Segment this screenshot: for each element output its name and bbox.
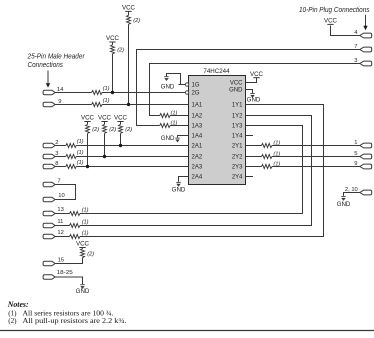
wire 1G stub (179, 84, 182, 86)
25-pin header pin 3 connector (43, 154, 55, 159)
resistor 100-ohm series (1) on 1A3 line (160, 123, 170, 127)
svg-text:VCC: VCC (98, 115, 112, 122)
10-pin plug pins 2,10 connector (360, 190, 372, 195)
bottom rule (0, 330, 374, 332)
svg-text:GND: GND (161, 83, 175, 90)
25-pin header pin 13 connector (43, 211, 55, 216)
svg-text:VCC: VCC (76, 241, 90, 248)
wire pullup B top (128, 11, 130, 15)
wire R to 2A1 (76, 145, 188, 147)
wire R12 loop to 1Y1 (80, 105, 324, 237)
wire pin13 to R (55, 213, 70, 215)
svg-text:(2): (2) (109, 127, 116, 133)
resistor 100-ohm series (1) on pin13 line (70, 211, 80, 215)
25-pin header pin 2 connector (43, 143, 55, 148)
svg-text:12: 12 (57, 230, 63, 236)
svg-text:74HC244: 74HC244 (203, 68, 230, 75)
svg-text:VCC: VCC (106, 35, 120, 42)
resistor 2.2k pull-up (2) for pin9 line (127, 15, 131, 24)
ground at 1G enable (164, 76, 168, 78)
ground at pins 18-25 (80, 284, 84, 286)
ground at 2A4 (176, 181, 180, 183)
svg-text:(2): (2) (92, 127, 99, 133)
arrow to 25-pin header (47, 71, 49, 85)
10-pin plug pin 1 connector (360, 143, 372, 148)
svg-text:(1): (1) (171, 120, 178, 126)
resistor 100-ohm series (1) on pin8 line (66, 164, 76, 168)
svg-text:(1): (1) (82, 219, 89, 225)
25-pin header pin 8 connector (43, 164, 55, 169)
wire pullup E drop (120, 133, 122, 145)
svg-text:1A2: 1A2 (192, 114, 203, 120)
wire 2Y1 to R (246, 145, 262, 147)
wire pullup A top (112, 42, 114, 45)
ground at plug pins 2,10 (341, 196, 345, 198)
svg-text:VCC: VCC (230, 81, 243, 87)
svg-text:2A2: 2A2 (192, 155, 203, 161)
10-pin plug pin 4 connector (360, 33, 372, 38)
arrow to 10-pin plug (365, 15, 367, 27)
wire 1A4 to ground (178, 136, 189, 138)
wire pullup F top (82, 248, 84, 249)
svg-text:2A4: 2A4 (192, 175, 203, 181)
wire plug2,10 to ground (344, 193, 360, 196)
svg-text:(1): (1) (77, 150, 84, 156)
10-pin plug pin 3 connector (360, 61, 372, 66)
wire R to plug5 (272, 156, 360, 158)
svg-text:1Y2: 1Y2 (232, 114, 243, 120)
25-pin header pin 11 connector (43, 223, 55, 228)
svg-text:(1): (1) (273, 140, 280, 146)
svg-text:VCC: VCC (114, 115, 128, 122)
junction pullup A on pin14 line (111, 91, 114, 94)
resistor 100-ohm series (1) on 2Y2 line (262, 154, 272, 158)
resistor 2.2k pull-up (2) for pin14 line (111, 45, 115, 54)
25-pin header pin 12 connector (43, 234, 55, 239)
svg-text:11: 11 (57, 219, 63, 225)
wire U1 VCC pin to supply (246, 78, 257, 83)
wire R to 2G (102, 92, 185, 94)
wire 2Y2 to R (246, 156, 262, 158)
svg-text:18-25: 18-25 (57, 270, 73, 276)
25-pin header pin 15 connector (43, 261, 55, 266)
svg-text:(2): (2) (117, 48, 124, 54)
wire 2Y3 to R (246, 166, 262, 168)
junction pullup D on pin3 line (103, 155, 106, 158)
svg-text:VCC: VCC (81, 115, 95, 122)
wire pin7 to pin10 jumper (55, 185, 76, 200)
svg-text:(1): (1) (171, 110, 178, 116)
svg-text:All pull-up resistors are 2.2: All pull-up resistors are 2.2 k¾. (23, 317, 127, 325)
IC U1: 74HC244 octal buffer body (189, 76, 246, 185)
svg-text:15: 15 (58, 258, 64, 264)
svg-text:2G: 2G (192, 91, 200, 97)
svg-text:GND: GND (172, 186, 186, 193)
svg-text:GND: GND (247, 97, 261, 104)
junction pullup C on pin8 line (86, 165, 89, 168)
resistor 100-ohm series (1) on pin14 line (92, 90, 102, 94)
svg-text:10: 10 (58, 193, 64, 199)
resistor 100-ohm series (1) on pin3 line (66, 154, 76, 158)
svg-text:GND: GND (161, 135, 175, 142)
resistor 2.2k pull-up (2) for pin15 line (81, 249, 85, 258)
wire pin2 to R (55, 145, 66, 147)
svg-text:2A1: 2A1 (192, 144, 203, 150)
wire pin18-25 to ground (55, 277, 83, 284)
wire pin12 to R (55, 236, 70, 238)
wire pullup D drop (104, 133, 106, 156)
wire pin9 to R (55, 104, 92, 106)
wire 1G to ground (167, 74, 186, 85)
svg-text:(1): (1) (77, 139, 84, 145)
wire R to 2A2 (76, 156, 188, 158)
svg-text:VCC: VCC (324, 18, 338, 25)
resistor 2.2k pull-up (2) for pin2 line (119, 124, 123, 133)
svg-text:(2): (2) (125, 127, 132, 133)
wire U1 GND pin to ground (246, 90, 253, 93)
wire pin3 to R (55, 156, 66, 158)
resistor 100-ohm series (1) on 2Y3 line (262, 164, 272, 168)
wire pullup D top (104, 122, 106, 125)
25-pin header pin 9 connector (43, 102, 55, 107)
svg-text:(1): (1) (82, 207, 89, 213)
junction pullup E on pin2 line (119, 144, 122, 147)
wire pullup C drop (87, 133, 89, 166)
wire pin8 to R (55, 166, 66, 168)
svg-text:7: 7 (57, 178, 60, 184)
svg-text:(1): (1) (103, 86, 110, 92)
resistor 100-ohm series (1) on 2Y1 line (262, 143, 272, 147)
svg-text:(2): (2) (133, 18, 140, 24)
svg-text:GND: GND (229, 88, 243, 94)
svg-text:(2): (2) (8, 317, 17, 325)
resistor 100-ohm series (1) on pin11 line (70, 223, 80, 227)
svg-text:2Y4: 2Y4 (232, 175, 243, 181)
wire plug7 loop to R-1A3 (137, 50, 360, 126)
svg-text:1A3: 1A3 (192, 124, 203, 130)
wire pullup C top (87, 122, 89, 125)
wire pullup A drop (112, 54, 114, 93)
10-pin plug pin 7 connector (360, 47, 372, 52)
wire R to 1A3 (170, 125, 188, 127)
wire pin14 to R (55, 92, 92, 94)
resistor 2.2k pull-up (2) for pin3 line (103, 124, 107, 133)
junction pullup B on pin9 line (127, 103, 130, 106)
svg-text:1Y4: 1Y4 (232, 134, 243, 140)
svg-text:2Y3: 2Y3 (232, 165, 243, 171)
wire R to 1A2 (170, 115, 188, 117)
svg-text:(1): (1) (82, 230, 89, 236)
wire R to 1A1 (102, 104, 189, 106)
wire pullup B drop (128, 24, 130, 104)
svg-text:(1): (1) (273, 161, 280, 167)
25-pin header pin 7 connector (43, 182, 55, 187)
resistor 100-ohm series (1) on 1A2 line (160, 113, 170, 117)
wire R to plug9 (272, 166, 360, 168)
wire R to 2A3 (76, 166, 188, 168)
wire R11 loop to 1Y2 (80, 116, 312, 226)
wire 2A4 to ground (179, 177, 189, 182)
svg-text:Notes:: Notes: (7, 300, 29, 309)
wire 2Y4 stub (246, 176, 254, 178)
wire pullup E top (120, 122, 122, 125)
wire R to plug1 (272, 145, 360, 147)
wire VCC to plug4 (331, 26, 360, 36)
wire 1Y4 stub (246, 135, 254, 137)
svg-text:(1): (1) (77, 160, 84, 166)
resistor 100-ohm series (1) on pin2 line (66, 143, 76, 147)
wire plug3 loop to R-1A2 (150, 64, 360, 116)
svg-text:13: 13 (57, 207, 63, 213)
svg-text:10-Pin Plug Connections: 10-Pin Plug Connections (299, 5, 370, 14)
resistor 100-ohm series (1) on pin9 line (92, 102, 102, 106)
ground at 1A4 (175, 137, 179, 139)
svg-text:(1): (1) (103, 98, 110, 104)
25-pin header pin 18-25 connector (43, 275, 55, 280)
resistor 2.2k pull-up (2) for pin8 line (86, 124, 90, 133)
wire pin11 to R (55, 225, 70, 227)
svg-text:2Y1: 2Y1 (232, 144, 243, 150)
svg-text:1Y3: 1Y3 (232, 124, 243, 130)
10-pin plug pin 9 connector (360, 164, 372, 169)
svg-text:2A3: 2A3 (192, 165, 203, 171)
svg-text:(2): (2) (87, 252, 94, 258)
svg-text:GND: GND (76, 288, 90, 295)
svg-text:1A4: 1A4 (192, 134, 203, 140)
svg-text:1Y1: 1Y1 (232, 103, 243, 109)
svg-text:1G: 1G (192, 83, 200, 89)
svg-text:Connections: Connections (28, 60, 64, 69)
10-pin plug pin 5 connector (360, 154, 372, 159)
25-pin header pin 14 connector (43, 90, 55, 95)
svg-text:2Y2: 2Y2 (232, 155, 243, 161)
svg-text:VCC: VCC (122, 5, 136, 12)
svg-text:GND: GND (337, 201, 351, 208)
resistor 100-ohm series (1) on pin12 line (70, 234, 80, 238)
wire R13 loop to 1Y3 (80, 126, 303, 214)
wire pin15 to pullup (55, 258, 83, 264)
svg-text:VCC: VCC (250, 71, 264, 78)
ground at U1 GND pin (250, 93, 254, 95)
25-pin header pin 10 connector (43, 197, 55, 202)
svg-text:1A1: 1A1 (192, 103, 203, 109)
svg-text:(1): (1) (273, 151, 280, 157)
